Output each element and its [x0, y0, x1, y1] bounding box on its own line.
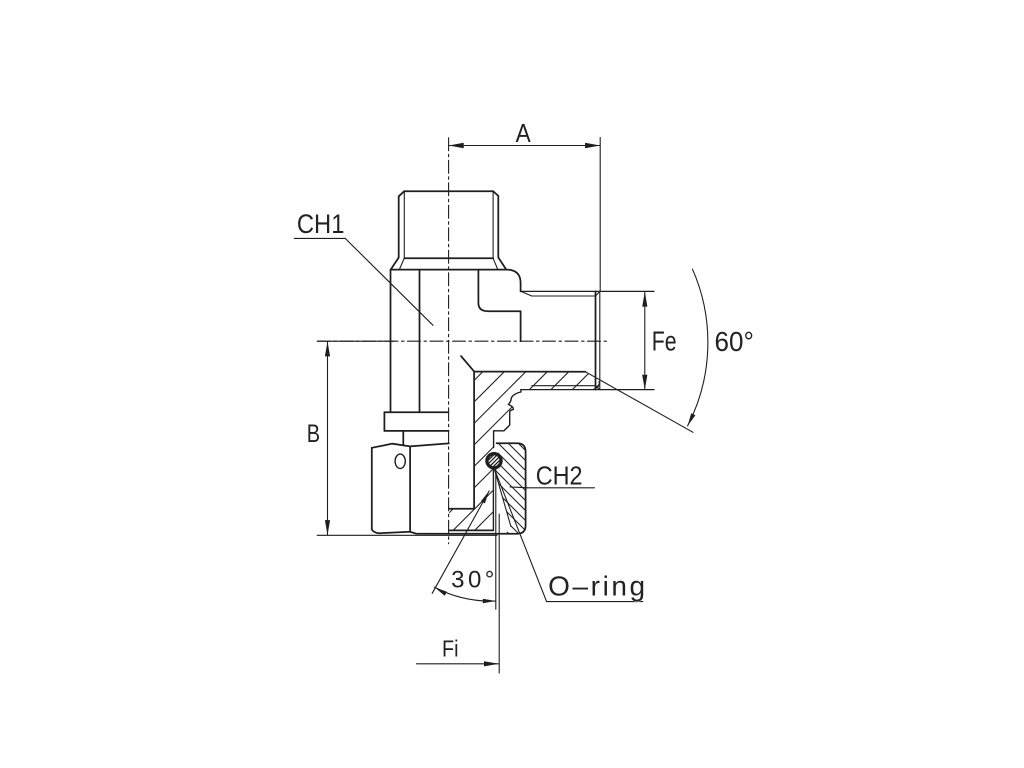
stud outer profile with thread runout: [494, 390, 521, 448]
flare inner-right diagonal: [493, 258, 498, 269]
CH2 leader line: [510, 486, 528, 489]
svg-text:60°: 60°: [715, 326, 754, 357]
vertical centerline (dash-dot): [448, 138, 450, 544]
top male thread chamfer top-right: [493, 191, 498, 196]
svg-text:CH1: CH1: [297, 209, 345, 239]
right port end chamfer bottom: [596, 386, 600, 390]
band right rounded runout: [593, 382, 600, 390]
body left inner edge: [419, 270, 421, 413]
top male thread bottom edge: [404, 257, 493, 259]
body boss face upper segment: [520, 283, 522, 291]
30-degree line: [432, 491, 489, 593]
nut section CH2 top edge: [497, 443, 526, 452]
60-degree arc arrowhead: [688, 413, 696, 426]
O-ring extension vertical 2: [498, 514, 500, 673]
dimension Fe bottom arrowhead: [642, 375, 647, 390]
hex nut top edge: [372, 443, 449, 447]
30-degree arc: [435, 587, 496, 601]
stud bottom face: [449, 529, 493, 531]
body left outer edge: [390, 270, 392, 413]
dimension Fi arrowhead: [484, 661, 499, 666]
dimension B line: [327, 342, 329, 535]
top male thread outer left edge: [398, 196, 400, 257]
dimension A right extension line: [599, 138, 601, 292]
body boss face lower segment: [520, 311, 522, 341]
flange left edge: [383, 412, 385, 431]
stem left edge: [402, 431, 404, 444]
dimension Fi line: [417, 663, 499, 665]
dimension B bottom arrowhead: [325, 520, 330, 535]
CH2 label underline: [528, 487, 595, 489]
flare outer-right diagonal: [498, 258, 506, 270]
60-degree arc: [688, 269, 708, 426]
svg-text:B: B: [307, 420, 320, 448]
body right inner edge with fillet: [478, 270, 520, 312]
web left edge: [473, 371, 475, 508]
nut section V-groove edge: [494, 469, 511, 527]
right port thread minor top line: [532, 295, 596, 297]
band top edge: [474, 371, 585, 373]
body top-right corner radius: [506, 270, 520, 284]
right port chamfer left-top: [521, 291, 532, 296]
30-degree line arrowhead: [481, 491, 489, 504]
nut section CH2 right edge: [517, 452, 525, 534]
hex nut facet line: [409, 446, 411, 531]
30-degree arc right arrowhead: [483, 599, 496, 604]
dimension B bottom extension line: [317, 534, 497, 536]
flange bottom edge: [384, 430, 448, 432]
top male thread minor-dia left line: [403, 191, 405, 258]
body top edge: [391, 269, 507, 271]
section break diagonal: [461, 356, 474, 371]
dimension Fe line: [644, 292, 646, 389]
right port end face: [595, 291, 597, 389]
nut bottom line through section: [449, 533, 517, 535]
dimension A right arrowhead: [585, 143, 600, 149]
svg-text:O–ring: O–ring: [548, 570, 648, 601]
30-degree arc left arrowhead: [435, 587, 447, 596]
top male thread chamfer top-left: [399, 191, 405, 196]
hatching of body section (45-degree lines): [245, 360, 774, 545]
flare outer-left diagonal: [391, 258, 399, 270]
svg-text:30°: 30°: [451, 566, 498, 593]
O-ring label underline: [547, 601, 643, 603]
flare inner-left diagonal: [399, 258, 404, 269]
60-degree cone diagonal line: [586, 372, 694, 433]
dimension B top arrowhead: [325, 341, 330, 356]
hex nut left edge: [371, 448, 373, 530]
dimension A left arrowhead: [449, 143, 464, 149]
top male thread minor-dia right line: [492, 191, 494, 258]
O-ring: [487, 454, 501, 468]
O-ring leader line: [494, 469, 546, 602]
svg-text:A: A: [516, 119, 532, 148]
top male thread outer right edge: [497, 196, 499, 258]
horizontal centerline (dash-dot): [318, 340, 610, 342]
svg-text:CH2: CH2: [536, 462, 583, 490]
right port bottom edge with Fe extension: [521, 389, 654, 391]
dimension A line: [449, 145, 600, 147]
top male thread top edge: [404, 190, 493, 192]
right port top edge with Fe extension: [521, 290, 654, 292]
dimension B top extension line: [317, 340, 394, 342]
O-ring extension vertical 1: [495, 468, 497, 609]
right port end second line: [599, 291, 601, 389]
CH1 leader diagonal: [345, 238, 433, 325]
hex nut port hole ellipse: [395, 454, 405, 468]
CH1 label underline: [294, 237, 345, 239]
bore bottom face: [449, 508, 474, 510]
flange top edge: [384, 411, 448, 413]
hatching of nut section CH2 (opposite 45-degree lines): [340, 435, 630, 545]
hex nut bottom edge: [372, 529, 449, 533]
svg-text:Fi: Fi: [442, 636, 458, 662]
svg-text:Fe: Fe: [652, 326, 677, 358]
dimension Fe top arrowhead: [642, 292, 647, 307]
stud right edge below O-ring: [492, 469, 494, 530]
right port thread minor bottom line: [532, 385, 596, 387]
right port end chamfer top: [596, 291, 600, 296]
